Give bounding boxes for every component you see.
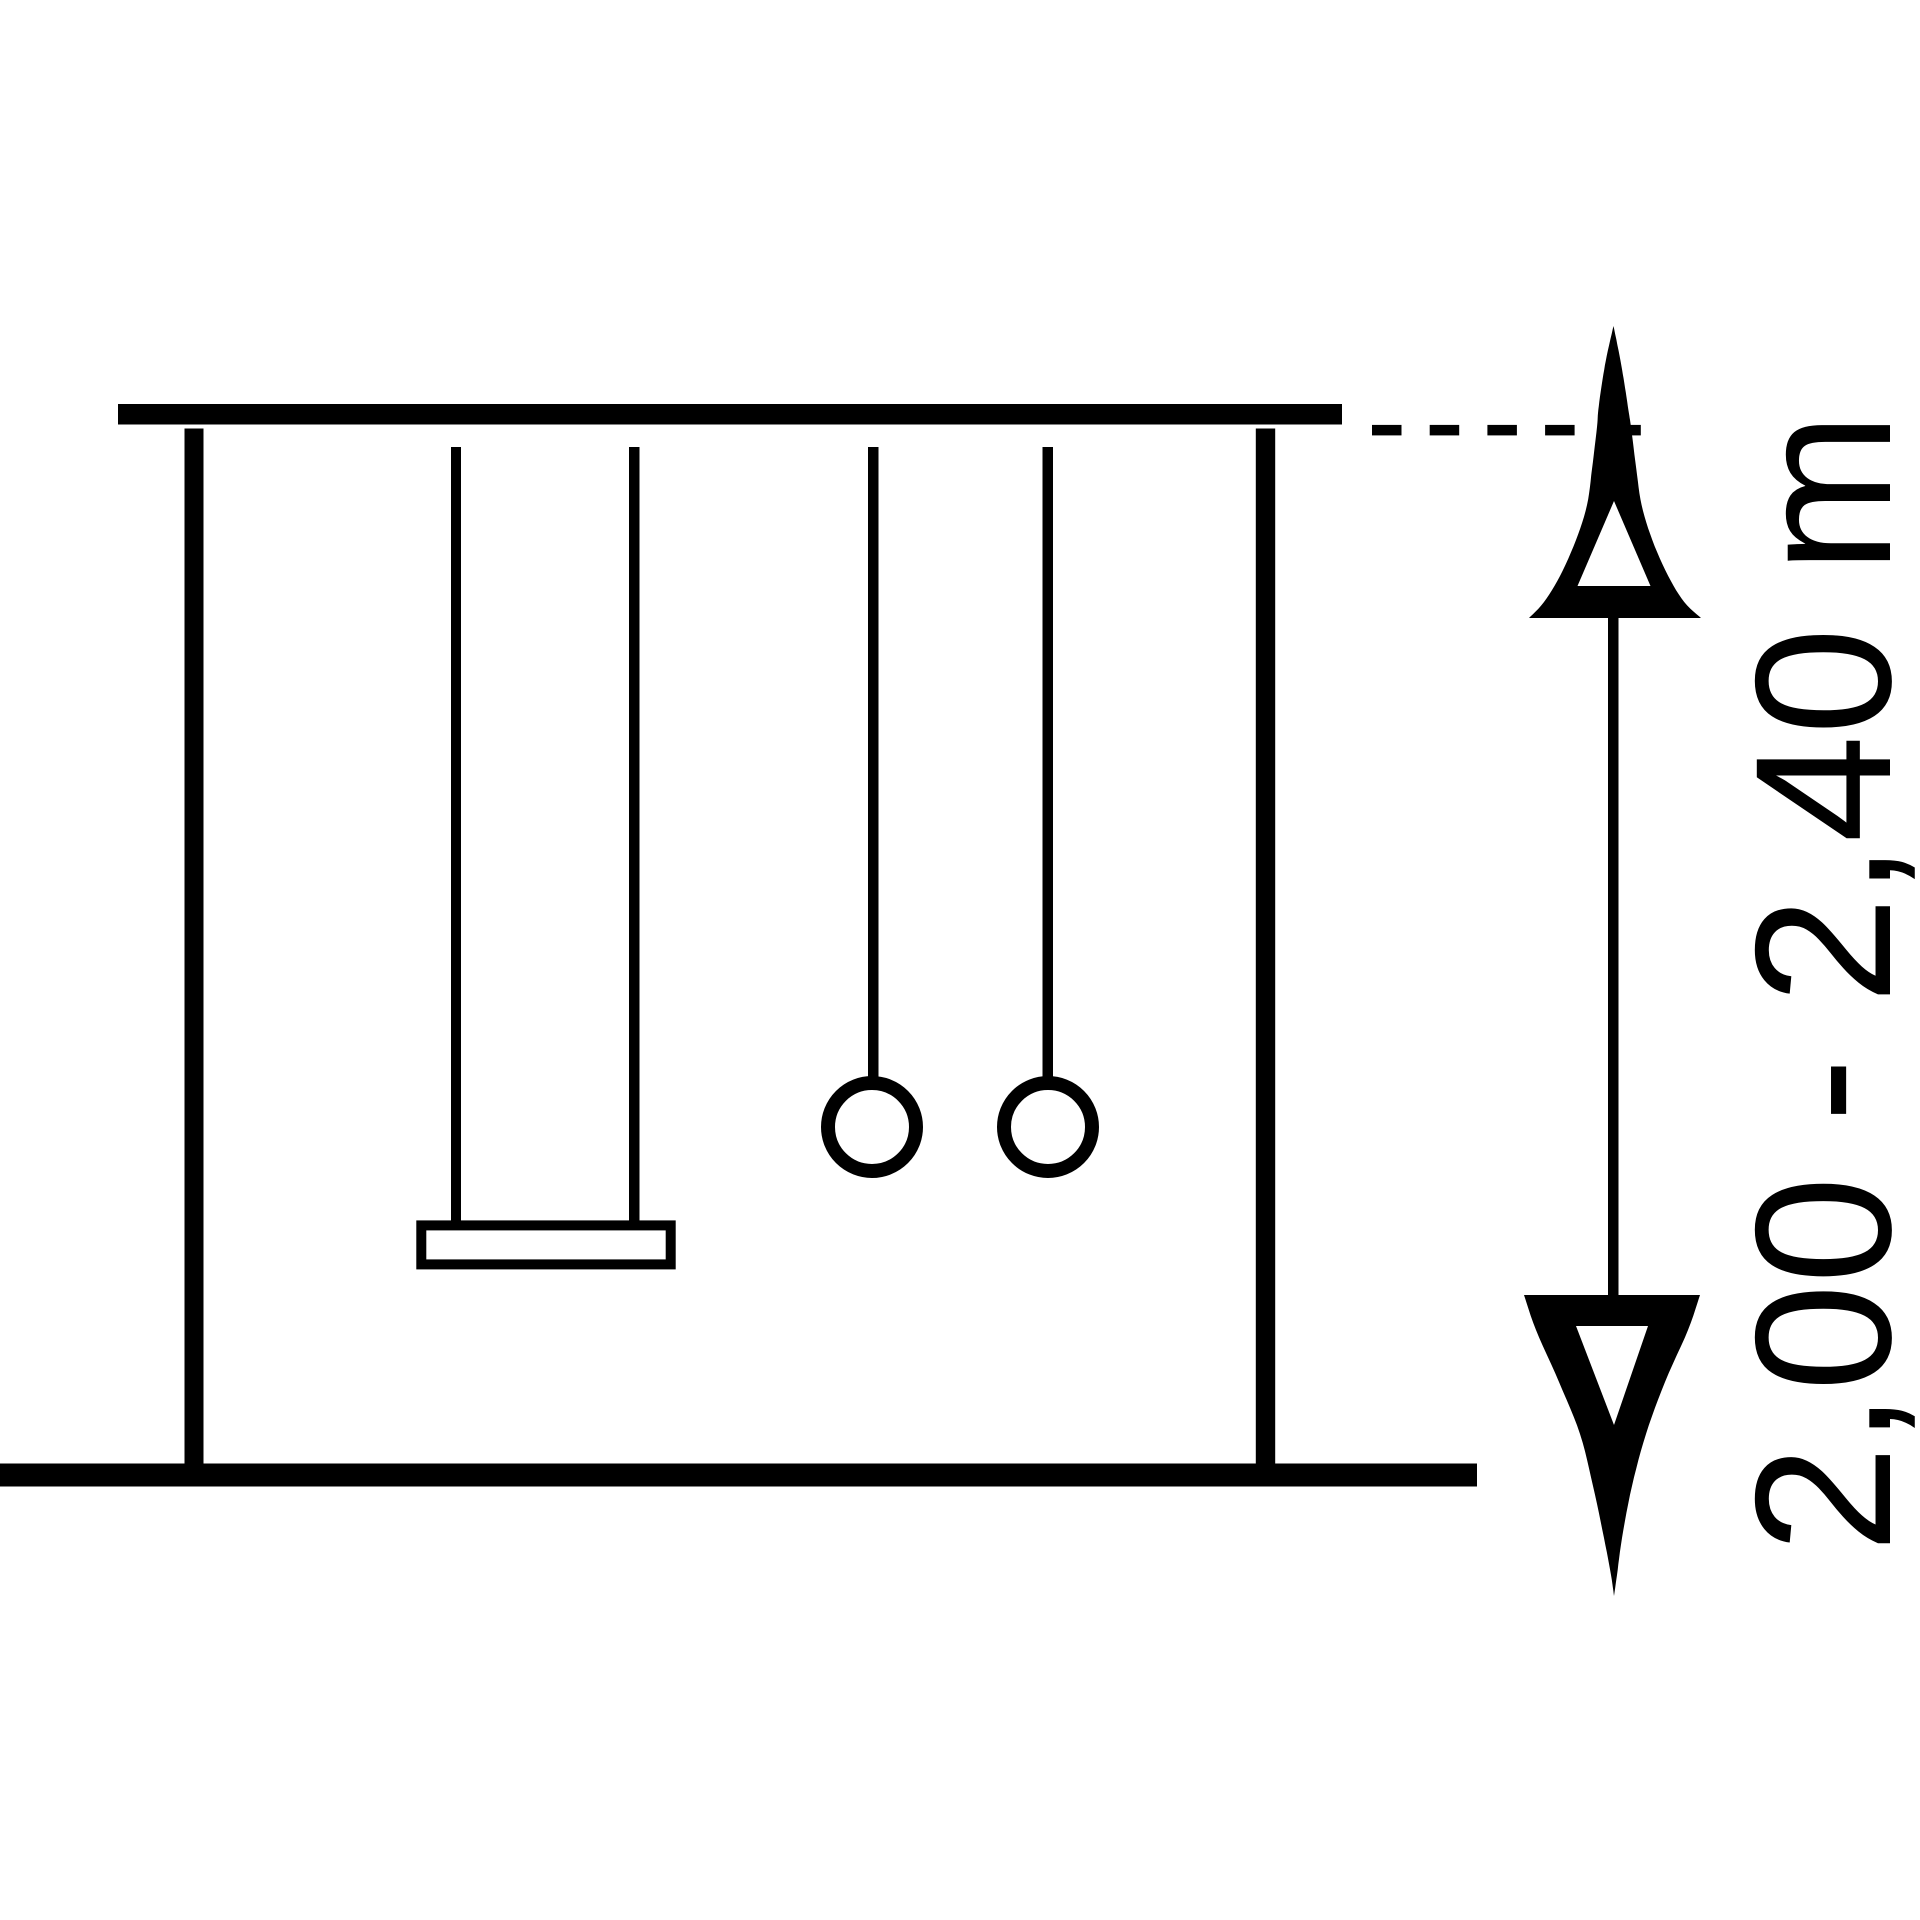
top beam: [118, 404, 1342, 425]
dashed extension line: [1372, 425, 1641, 436]
swing seat: [421, 1225, 670, 1264]
ground line: [0, 1464, 1477, 1487]
ring rope right: [1043, 447, 1054, 1077]
dimension arrowhead bottom: [1524, 1295, 1700, 1596]
right post: [1256, 429, 1275, 1464]
swing rope left: [451, 447, 461, 1221]
ring rope left: [868, 447, 879, 1077]
svg-text:2,00 - 2,40 m: 2,00 - 2,40 m: [1716, 412, 1920, 1553]
swing rope right: [629, 447, 640, 1221]
gym ring right: [1004, 1083, 1092, 1171]
left post: [185, 429, 204, 1464]
dimension arrowhead top: [1529, 326, 1701, 618]
gym ring left: [828, 1083, 916, 1171]
dimension arrow shaft: [1608, 610, 1619, 1300]
